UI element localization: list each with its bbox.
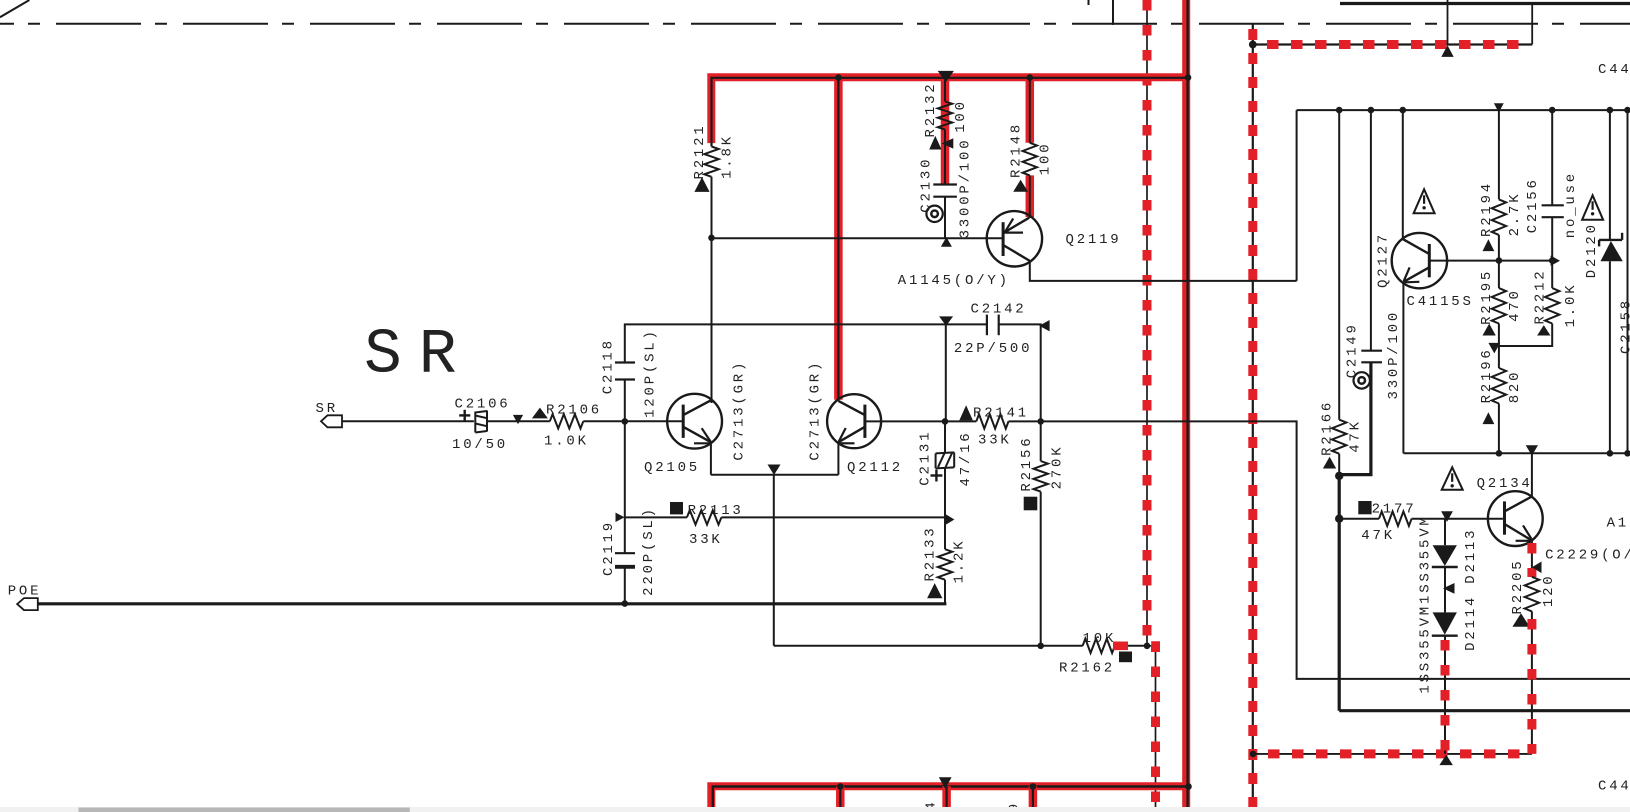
svg-text:D2120: D2120 [1584, 222, 1600, 278]
svg-text:1.0K: 1.0K [1563, 283, 1579, 328]
wire R2141 to right net [1009, 421, 1630, 679]
red highlight dashes on bus B3 [1248, 29, 1257, 812]
wire emitter rail down [773, 475, 775, 646]
svg-text:C2713(GR): C2713(GR) [807, 360, 823, 461]
svg-text:1.2K: 1.2K [951, 539, 967, 584]
svg-text:R2148: R2148 [1008, 122, 1024, 178]
polarity + of C2106 [459, 414, 470, 416]
capacitor C2119 [615, 552, 635, 554]
resistor R2133 [938, 549, 952, 580]
wire vertical bus B1 [1147, 0, 1156, 812]
marker square R2113 [670, 502, 683, 514]
svg-text:100: 100 [953, 99, 969, 133]
transistor Q2127 [1392, 233, 1447, 288]
capacitor C2118 [615, 361, 635, 363]
wire D2114 to bottom dashed net [1444, 636, 1446, 754]
resistor R2212 [1545, 288, 1559, 323]
capacitor C2149 [1361, 350, 1382, 352]
resistor R2194 [1492, 199, 1506, 235]
node R2156 bottom [1037, 643, 1044, 650]
svg-text:220P(SL): 220P(SL) [641, 506, 657, 596]
node R2162 to bus B1 [1144, 643, 1151, 650]
marker below R2196 [1483, 412, 1495, 424]
wire C2119 to POE rail [624, 567, 626, 604]
svg-text:D2114 D2113: D2114 D2113 [1463, 528, 1479, 651]
svg-text:R2205: R2205 [1510, 558, 1526, 614]
marker C2142 right [1039, 320, 1049, 331]
test point at C2130 [926, 206, 942, 222]
diode D2120 zener [1599, 239, 1622, 241]
resistor R2121 [704, 147, 718, 177]
wire stub from top into dashed net [1447, 0, 1449, 45]
svg-text:C44: C44 [1598, 62, 1630, 78]
junction marker drop 3 [939, 777, 952, 789]
wire C2142 node down to R2141 node [945, 324, 947, 421]
marker at base node right [1551, 256, 1560, 266]
junction marker Q2134 collector [1526, 445, 1538, 455]
red highlight dashes Q2134 emitter [1527, 543, 1536, 577]
wire to R2177 [1339, 518, 1379, 520]
svg-text:C2130: C2130 [919, 157, 935, 213]
svg-text:C2713(GR): C2713(GR) [731, 360, 747, 461]
junction marker at dashed net [1441, 45, 1453, 57]
wire to D2113 [1444, 519, 1446, 546]
resistor R2162 [1083, 639, 1115, 653]
wire R2162 to bus B1 [1115, 645, 1147, 647]
junction marker C2142 left [939, 316, 953, 326]
svg-text:10K: 10K [1083, 631, 1117, 647]
node C2119 at POE rail [622, 600, 629, 607]
red highlight dashes on top right net [1267, 40, 1521, 49]
svg-text:120P(SL): 120P(SL) [643, 328, 659, 418]
svg-text:1.0K: 1.0K [544, 434, 589, 450]
boundary corner diagonal [0, 0, 29, 17]
red highlight drop 4 [1029, 786, 1038, 812]
resistor R2156 [1034, 461, 1048, 492]
svg-text:C2131: C2131 [917, 430, 933, 486]
svg-text:R2106: R2106 [546, 403, 602, 419]
wire C2142 right [999, 324, 1041, 421]
wire emitter rail [711, 474, 839, 476]
red highlight dashes on bottom net [1268, 749, 1532, 758]
marker below R2205 [1512, 613, 1529, 627]
svg-text:R2133: R2133 [923, 525, 939, 581]
wire drop 4 [1032, 787, 1034, 812]
marker up at R2106 [532, 408, 548, 419]
marker at R2113 tap [616, 513, 625, 522]
resistor R2177 [1379, 512, 1412, 526]
wire Q2119 collector [1030, 261, 1297, 281]
wire bus to R2148 [1029, 80, 1031, 143]
svg-text:2177: 2177 [1372, 501, 1417, 517]
wire R2106 to Q2105 base [583, 420, 683, 422]
svg-text:A1145(O/Y): A1145(O/Y) [898, 273, 1010, 289]
svg-text:C44: C44 [1598, 779, 1630, 795]
node D2120 bottom [1607, 450, 1614, 457]
resistor R2113 [687, 510, 722, 524]
svg-text:1SS355VM1SS355VM: 1SS355VM1SS355VM [1418, 514, 1434, 693]
wire dashed net bottom [1253, 753, 1532, 755]
wire D2120 to bottom rail [1609, 261, 1611, 453]
wire Q2105 emitter [710, 442, 712, 475]
wire R2212 bottom jog [1499, 324, 1552, 347]
resistor R2106 [550, 414, 584, 428]
svg-text:A11: A11 [1607, 516, 1630, 532]
wire vertical bus B2 [1186, 0, 1188, 812]
svg-text:R2196: R2196 [1479, 347, 1495, 403]
wire rail to R2166 [1338, 110, 1340, 420]
marker below R2212 [1537, 325, 1550, 335]
wire POE rail [38, 602, 947, 605]
wire top rail to Q2127 collector [1402, 110, 1404, 239]
svg-text:SR: SR [364, 320, 474, 391]
wire Q2112 emitter [837, 442, 839, 475]
node R2156 top [1037, 418, 1044, 425]
wire Q2127 base [1429, 260, 1552, 262]
svg-text:120: 120 [1541, 573, 1557, 607]
marker square R2162 [1119, 652, 1132, 663]
svg-text:330P/100: 330P/100 [1386, 310, 1402, 400]
marker square R2156 [1024, 497, 1038, 511]
node C2156 top [1549, 107, 1556, 114]
wire rail to C2156 [1551, 110, 1553, 205]
wire right edge branch [1627, 110, 1629, 453]
svg-text:Q2119: Q2119 [1066, 232, 1122, 248]
resistor R2132 [938, 101, 952, 129]
node R2148 at bus [1027, 74, 1034, 81]
wire rail to Q2134 collector [1531, 453, 1533, 496]
transistor Q2112 [827, 394, 881, 448]
svg-text:R2166: R2166 [1319, 400, 1335, 456]
wire Q2112 collector to bus [837, 78, 839, 401]
wire drop 2 [839, 787, 841, 812]
red highlight drop 3 [942, 786, 951, 812]
node right edge branch bottom [1624, 450, 1630, 457]
junction marker below dashed net [1439, 755, 1453, 765]
svg-text:R2132: R2132 [923, 81, 939, 137]
marker at R2205 top [1532, 562, 1542, 574]
svg-text:10/50: 10/50 [452, 437, 508, 453]
wire D2113 to D2114 [1444, 567, 1446, 612]
svg-text:33K: 33K [978, 433, 1012, 449]
svg-text:R2194: R2194 [1479, 181, 1495, 237]
marker between diodes [1443, 583, 1455, 594]
wire R2156 down [1040, 492, 1042, 646]
svg-text:R2212: R2212 [1532, 268, 1548, 324]
svg-text:C2229(O/Y: C2229(O/Y [1545, 548, 1630, 564]
junction marker diode string [1441, 511, 1453, 522]
svg-text:2.7K: 2.7K [1507, 192, 1523, 237]
wire right top rail [1297, 109, 1630, 111]
warning mark at Q2127 [1414, 189, 1435, 213]
wire drop 3 [945, 787, 947, 812]
svg-text:C4115S: C4115S [1407, 294, 1474, 310]
wire Q2119 base rail [712, 237, 1004, 239]
wire thick vertical down [1338, 476, 1341, 711]
wire vertical bus B3 [1252, 25, 1254, 812]
resistor R2196 [1492, 368, 1506, 404]
marker below R2133 [927, 583, 942, 598]
wire R2121 to Q2105 collector [711, 177, 713, 403]
svg-text:Q2127: Q2127 [1376, 232, 1392, 288]
capacitor C2131 [936, 452, 955, 453]
wire C2156 to base node [1551, 217, 1553, 260]
resistor R2166 [1332, 420, 1346, 454]
svg-text:no_use: no_use [1563, 171, 1579, 238]
svg-text:R2162: R2162 [1059, 661, 1115, 677]
node thick junction [1335, 472, 1343, 480]
svg-text:Q2134: Q2134 [1477, 476, 1533, 492]
wire node to C2131 [944, 421, 946, 452]
svg-text:C2142: C2142 [971, 302, 1027, 318]
node R2177 tap [1335, 515, 1343, 523]
transistor Q2105 [667, 394, 722, 449]
svg-text:R2141: R2141 [973, 406, 1029, 422]
transistor Q2119 [987, 211, 1042, 266]
wire dashed net horizontal top right [1253, 43, 1532, 45]
wire top supply bus [712, 78, 1189, 147]
wire rail to D2120 [1609, 110, 1611, 240]
junction marker C2130 at base rail [941, 237, 952, 247]
resistor R2148 [1023, 143, 1037, 176]
svg-text:R2156: R2156 [1019, 436, 1035, 492]
wire C2118 to base node [624, 380, 626, 422]
junction marker at top bus R2132 [938, 71, 954, 82]
wire C2130 to base rail [944, 197, 946, 239]
wire emitter to R2162 rail [774, 645, 1041, 647]
wire C2149 down thick [1339, 362, 1371, 474]
svg-text:1.8K: 1.8K [719, 134, 735, 179]
capacitor C2106 [474, 412, 476, 433]
node R2121 to Q2119 base wire [708, 235, 715, 242]
wire R2132 to C2130 [944, 130, 946, 184]
node C2156 bottom [1549, 257, 1556, 264]
red highlight dashes below R2205 [1527, 619, 1536, 754]
diode D2113 [1433, 545, 1457, 566]
warning mark at D2120 [1582, 195, 1603, 220]
wire bus to R2132 [944, 80, 946, 101]
svg-text:47K: 47K [1361, 528, 1395, 544]
wire bottom right rail [1403, 452, 1630, 454]
marker below R2195 [1483, 324, 1496, 336]
node Q2112 collector at bus [835, 74, 842, 81]
thick bus line top right [1340, 2, 1630, 5]
wire rail to C2149 [1370, 110, 1372, 351]
resistor R2195 [1492, 288, 1506, 323]
svg-text:33K: 33K [689, 532, 723, 548]
wire Q2134 emitter [1531, 541, 1533, 577]
node R2196 bottom [1496, 450, 1503, 457]
svg-text:Q2112: Q2112 [847, 460, 903, 476]
marker below R2166 [1323, 457, 1336, 469]
scrollbar track [0, 807, 1630, 812]
node R2166 top [1336, 107, 1343, 114]
wire R2148 to Q2119 emitter [1029, 175, 1031, 218]
wire node to R2156 [1040, 421, 1042, 461]
node D2120 top [1607, 107, 1614, 114]
wire from thick bus down to dashed net [1531, 4, 1533, 45]
capacitor C2156 [1542, 204, 1564, 206]
junction marker R2194 top [1494, 103, 1504, 112]
red highlight drop 2 [836, 786, 845, 812]
red highlight Q2112 collector [834, 77, 843, 399]
wire node down to C2119 [624, 421, 626, 553]
node bus B3 to bottom dashed net [1250, 751, 1257, 758]
resistor R2141 [976, 414, 1008, 428]
svg-text:100: 100 [1038, 142, 1054, 176]
wire thick bottom rail [1339, 709, 1630, 712]
node drop 4 [1030, 783, 1037, 790]
svg-text:C2106: C2106 [455, 397, 511, 413]
red highlight top supply bus [711, 77, 1186, 143]
marker down at SR wire [513, 415, 523, 424]
svg-text:22P/500: 22P/500 [954, 341, 1032, 357]
wire C2118 top rail to C2142 [625, 324, 987, 362]
wire R2133 to POE rail [944, 580, 946, 604]
marker at R2121 bottom [694, 177, 709, 192]
marker at R2141 [959, 405, 973, 420]
wire C2119 node to R2113 [625, 516, 687, 518]
red highlight R2132 branch [941, 77, 950, 183]
wire R2196 to bottom rail [1498, 404, 1500, 454]
svg-text:C2149: C2149 [1344, 322, 1360, 378]
wire R2113 to C2131 node [721, 516, 945, 518]
warning mark at Q2134 [1442, 467, 1463, 490]
red highlight dash at R2162 [1113, 642, 1128, 651]
resistor R2205 [1525, 577, 1539, 612]
node SR base [622, 418, 629, 425]
wire R2195 to R2196 node [1498, 324, 1500, 369]
node bus at B2 [1185, 74, 1192, 81]
wire Q2119 collector riser [1296, 110, 1298, 281]
capacitor C2142 [986, 315, 988, 336]
junction marker at R2196 top [1488, 343, 1500, 354]
svg-text:POE: POE [8, 584, 42, 600]
red highlight bottom bus [711, 786, 1186, 812]
wire R2194 to node [1498, 235, 1500, 288]
diode D2114 [1433, 612, 1457, 634]
svg-text:C2119: C2119 [601, 520, 617, 576]
red highlight R2148 branch lower [1026, 175, 1035, 217]
wire stub top edge [1088, 0, 1090, 5]
node Q2127 collector top [1400, 107, 1407, 114]
wire C2131 to R2133 [944, 468, 946, 549]
polarity + of C2131 [931, 474, 943, 476]
node Q2127 base at R2194 [1496, 257, 1503, 264]
wire Q2112 base rail [865, 420, 945, 422]
wire to R2162 [1041, 645, 1083, 647]
wire node to R2212 [1551, 261, 1553, 289]
test point at C2149 [1354, 372, 1370, 388]
block boundary dash-dot line [0, 23, 1630, 25]
node drop 2 [837, 783, 844, 790]
wire bottom bus [713, 787, 1188, 812]
capacitor C2130 [933, 183, 957, 185]
svg-text:820: 820 [1507, 370, 1523, 404]
svg-text:R2121: R2121 [692, 123, 708, 179]
connector SR [321, 415, 342, 427]
node C2131 top [942, 418, 949, 425]
wire SR to C2106 [342, 420, 474, 422]
marker below R2194 [1483, 239, 1495, 251]
svg-text:R2195: R2195 [1479, 269, 1495, 325]
red highlight solid vertical bus B2 [1182, 0, 1190, 812]
svg-text:C2118: C2118 [600, 338, 616, 394]
marker square R2177 [1358, 501, 1371, 514]
transistor Q2134 [1488, 491, 1543, 546]
red highlight dashes on bus B1 [1147, 0, 1156, 812]
node right edge branch top [1624, 107, 1630, 114]
svg-text:470: 470 [1507, 288, 1523, 322]
wire R2166 to thick node [1338, 454, 1340, 476]
wire rail to R2194 [1498, 110, 1500, 199]
node bus B3 at top net [1249, 41, 1257, 49]
wire stub crossing boundary [1112, 0, 1114, 25]
node bottom bus at B2 [1185, 783, 1192, 790]
svg-text:270K: 270K [1050, 445, 1066, 490]
red highlight R2148 branch upper [1026, 77, 1035, 143]
svg-text:47/16: 47/16 [958, 430, 974, 486]
svg-text:C2158: C2158 [1619, 298, 1630, 354]
marker below R2148 [1013, 180, 1028, 192]
wire Q2127 emitter down [1402, 282, 1404, 453]
red highlight dashes on diode wire [1441, 640, 1450, 754]
marker at C2131 node [945, 514, 955, 526]
wire R2177 to Q2134 base [1412, 518, 1503, 520]
connector POE [17, 598, 38, 610]
junction marker on emitter rail [768, 465, 781, 476]
svg-text:C2156: C2156 [1525, 177, 1541, 233]
scrollbar thumb [79, 808, 410, 812]
svg-text:3300P/100: 3300P/100 [958, 138, 974, 239]
marker pair below R2132 [929, 136, 941, 150]
svg-text:Q2105: Q2105 [644, 460, 700, 476]
wire C2106 to R2106 [487, 420, 550, 422]
node C2149 top [1368, 107, 1375, 114]
wire R2205 to bottom dashed net [1531, 611, 1533, 754]
svg-text:47K: 47K [1347, 419, 1363, 453]
